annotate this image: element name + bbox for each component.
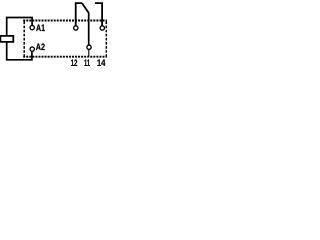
terminal A1 xyxy=(30,25,34,29)
relay outline dashed box: left border xyxy=(23,22,25,57)
svg-text:A2: A2 xyxy=(36,42,45,53)
terminal circle 12 xyxy=(74,26,78,30)
relay outline dashed box: bottom border xyxy=(23,56,107,58)
common contact 11 riser xyxy=(88,12,90,45)
svg-text:12: 12 xyxy=(71,58,78,66)
NC fixed contact 12: riser and top bar xyxy=(76,3,82,26)
terminal circle 11 xyxy=(87,45,91,49)
coil (rectangle, clipped at left image edge) xyxy=(0,36,13,42)
NO fixed contact 14: top bar and riser xyxy=(95,3,102,26)
svg-text:11: 11 xyxy=(84,58,90,66)
terminal circle 14 xyxy=(100,26,104,30)
terminal A2 xyxy=(30,47,34,51)
svg-text:A1: A1 xyxy=(36,23,46,34)
movable contact arm xyxy=(82,3,89,13)
wire: coil top to terminal A1 xyxy=(7,18,32,36)
wire: coil bottom to terminal A2 xyxy=(7,42,32,60)
pin 11 lead to case edge xyxy=(88,49,90,56)
relay outline dashed box: right border xyxy=(105,22,107,57)
relay outline dashed box: top border xyxy=(23,20,107,22)
svg-text:14: 14 xyxy=(97,58,106,66)
